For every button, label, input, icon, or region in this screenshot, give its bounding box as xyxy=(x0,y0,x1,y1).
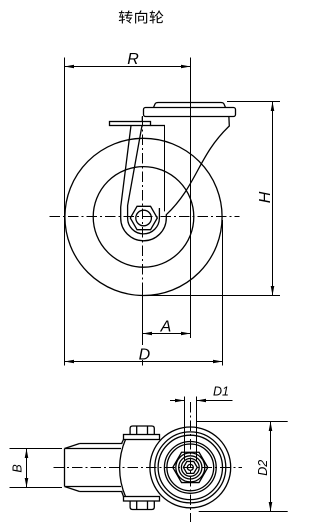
dimension B line xyxy=(25,449,29,488)
svg-text:B: B xyxy=(11,464,25,472)
swivel bearing circles xyxy=(150,427,231,508)
tire bottom inner edge xyxy=(65,486,122,488)
wire: swivel axis extension line xyxy=(190,58,192,339)
swivel cap xyxy=(154,103,226,108)
svg-text:H: H xyxy=(257,191,274,203)
fork crown connector bottom xyxy=(122,492,124,497)
dimension H line xyxy=(271,102,275,296)
wire: D1 right extension line xyxy=(196,397,198,462)
svg-text:A: A xyxy=(160,319,172,336)
svg-text:D: D xyxy=(139,347,151,364)
axle washer bar top xyxy=(124,435,160,440)
fork inner outline xyxy=(128,126,160,234)
fork outer outline xyxy=(121,117,230,241)
swivel plate xyxy=(144,108,236,117)
wire: H top extension line xyxy=(227,101,280,103)
wheel inner circle xyxy=(93,167,194,268)
wire: B top extension line xyxy=(10,448,63,450)
dimension A line xyxy=(143,332,191,336)
wire: D2 bottom extension line xyxy=(199,511,288,513)
wire: B bottom extension line xyxy=(10,487,63,489)
kingpin tube edge xyxy=(164,126,166,212)
dimension D1 xyxy=(170,399,233,403)
brake tab xyxy=(110,122,151,126)
dimension R line xyxy=(65,65,191,69)
node: plan vertical centerline xyxy=(190,402,192,522)
svg-text:D1: D1 xyxy=(213,384,229,398)
axle circle xyxy=(136,210,152,226)
wire: wheel axis extension down to D xyxy=(142,292,144,345)
wire: tab bottom edge extension xyxy=(151,125,166,127)
fork crown arc xyxy=(120,440,126,497)
dimension D2 line xyxy=(269,422,273,512)
fork crown connector top xyxy=(122,440,124,444)
dimension D line xyxy=(65,360,223,364)
tire top chamfer xyxy=(65,444,80,449)
svg-text:R: R xyxy=(127,51,139,68)
svg-text:D2: D2 xyxy=(256,460,270,476)
wheel outer circle xyxy=(65,138,222,295)
title 转向轮 xyxy=(119,10,164,23)
wire: H bottom extension line xyxy=(144,295,281,297)
wire: D2 top extension line xyxy=(197,421,288,423)
wire: D1 left extension line xyxy=(184,397,186,462)
axle hex nut bottom xyxy=(130,501,154,510)
wire: D right extension line xyxy=(222,220,224,366)
axle hex bolt head top xyxy=(130,426,154,435)
tire left end face xyxy=(64,449,66,487)
axle washer bar bottom xyxy=(124,497,160,502)
tire top inner edge xyxy=(65,448,122,450)
node: plan horizontal centerline xyxy=(54,467,243,469)
tire bottom chamfer xyxy=(65,487,80,492)
tire bottom outer edge xyxy=(80,491,123,493)
node: wheel horizontal centerline xyxy=(50,216,240,218)
node: wheel axis vertical centerline xyxy=(142,116,144,292)
axle hex nut xyxy=(130,206,157,229)
tire top outer edge xyxy=(80,443,123,445)
wire: left shared extension line for R and D xyxy=(64,58,66,366)
